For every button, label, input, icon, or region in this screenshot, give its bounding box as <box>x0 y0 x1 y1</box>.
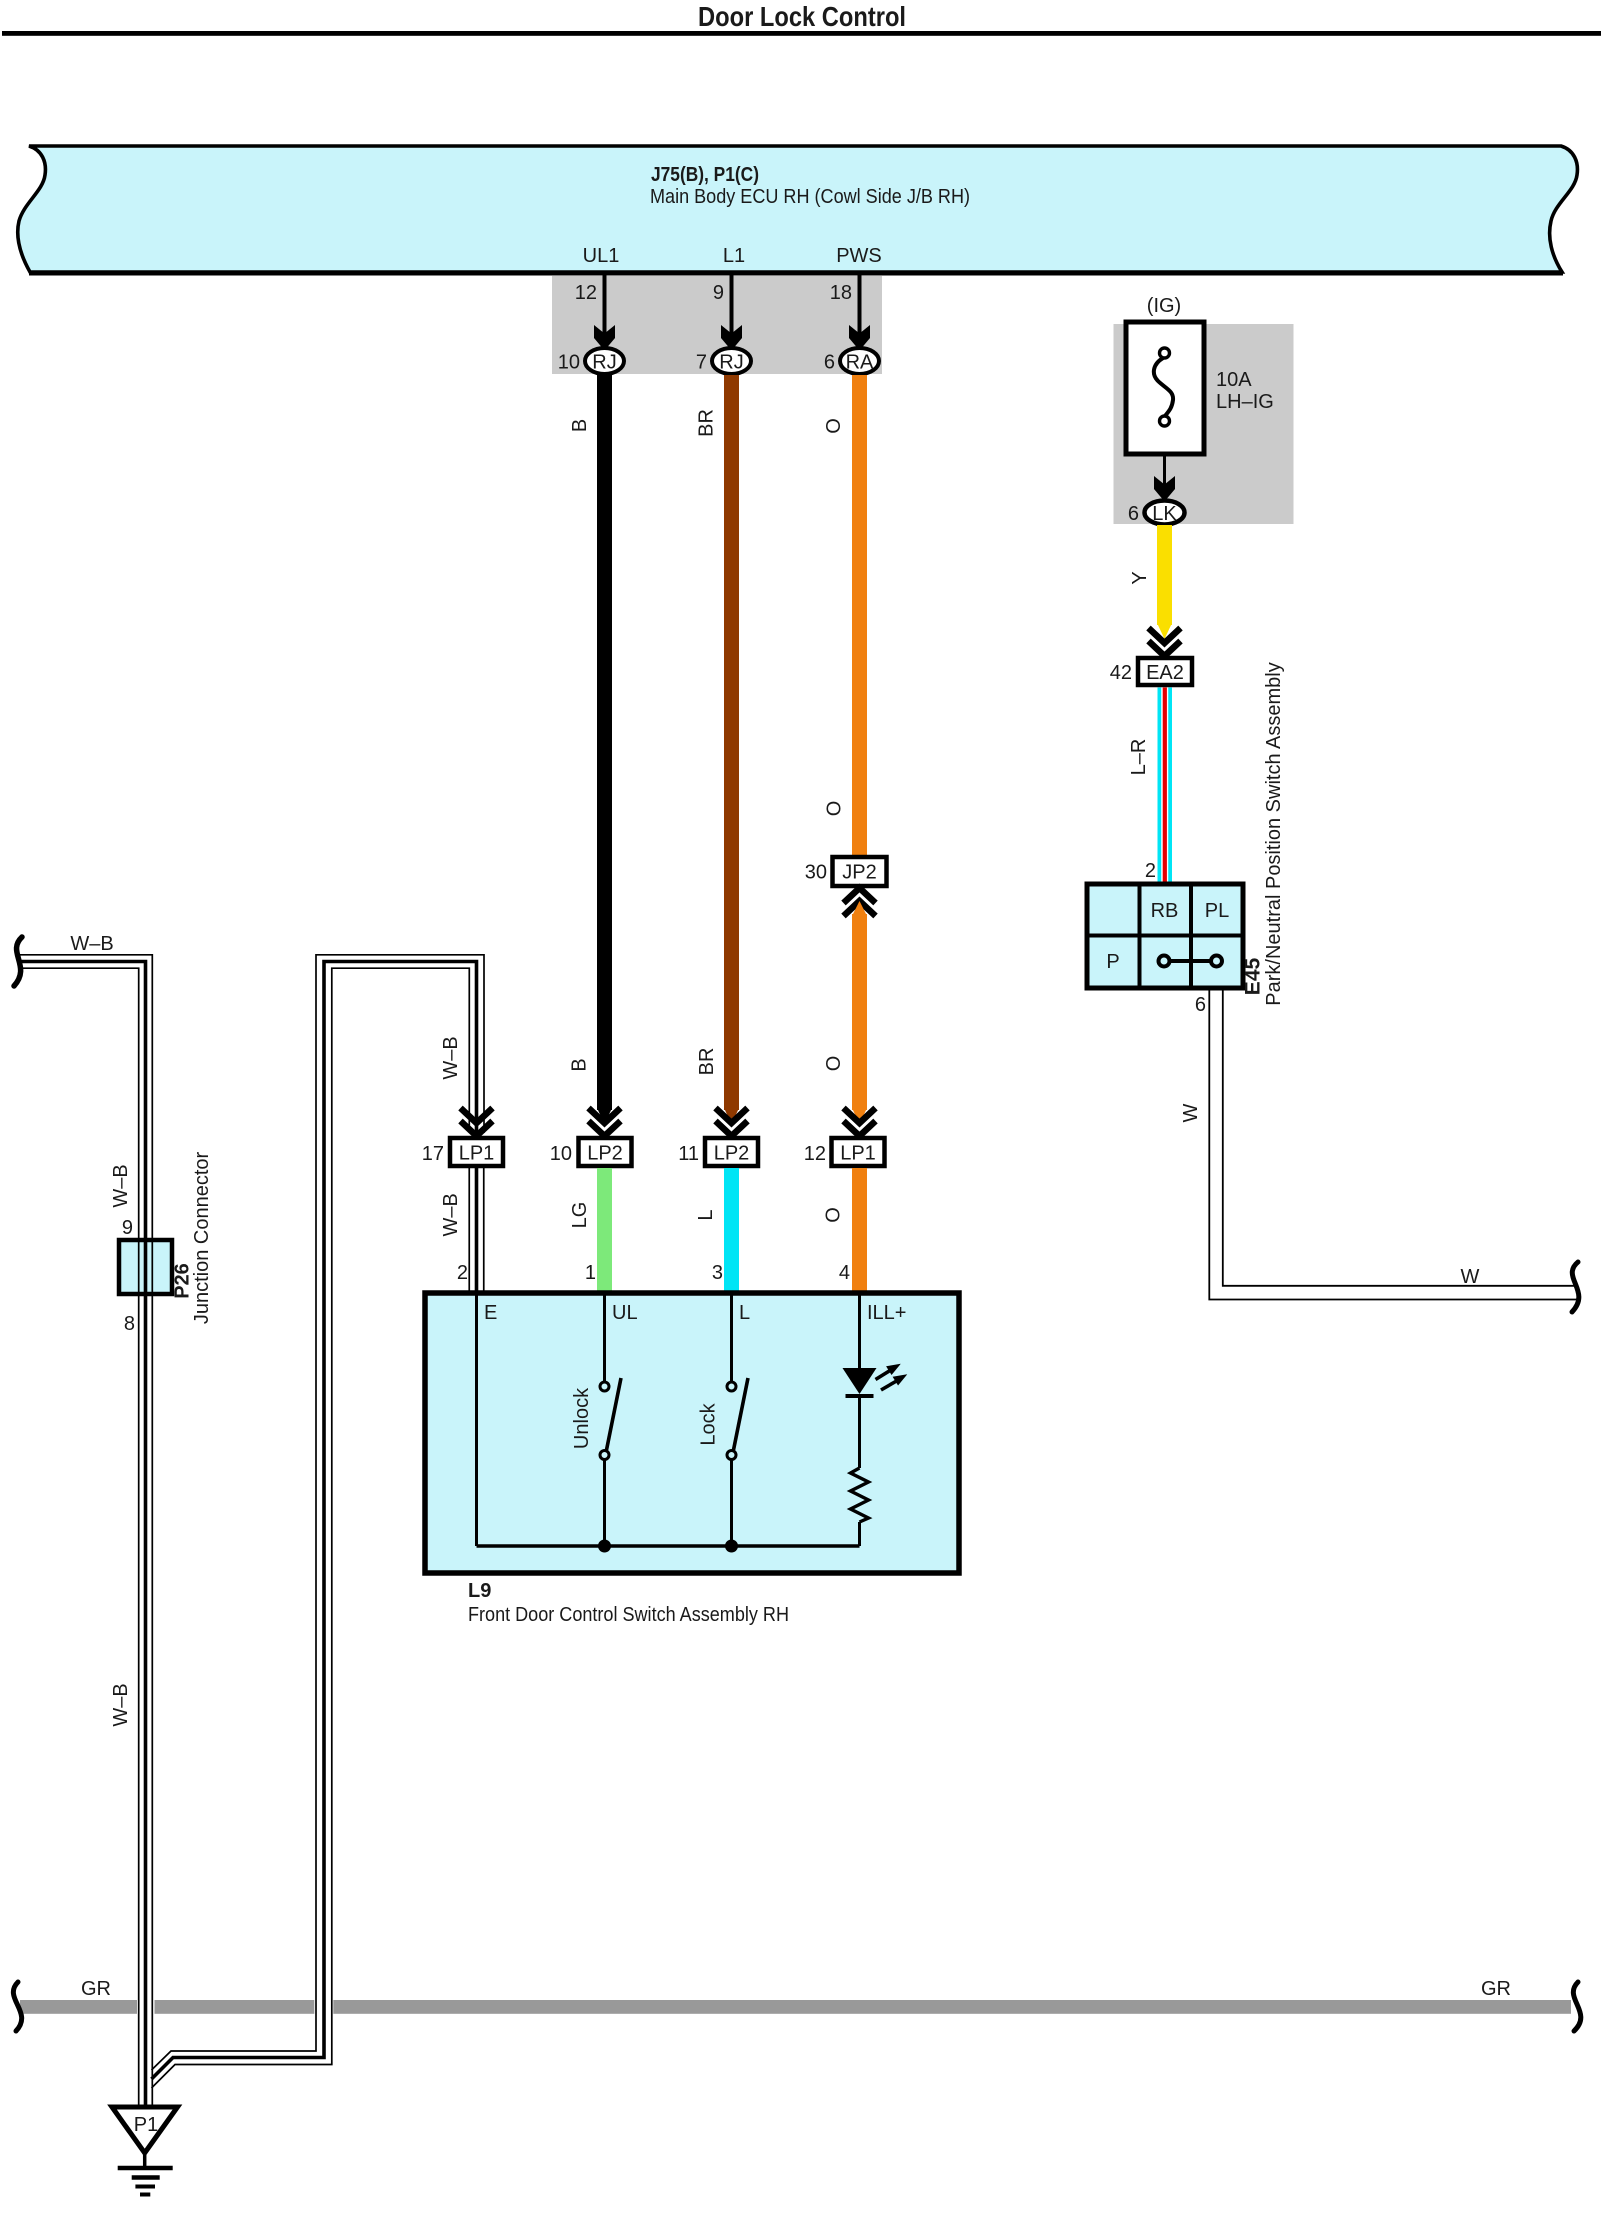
svg-text:PL: PL <box>1205 900 1229 922</box>
banner pin name UL1 <box>583 245 620 267</box>
chevron arrows up below JP2 <box>844 888 876 916</box>
svg-text:12: 12 <box>804 1143 826 1165</box>
wire W double line from E45 pin 6 <box>1209 988 1578 1300</box>
svg-text:11: 11 <box>678 1143 699 1165</box>
cell label PL <box>1205 900 1229 922</box>
svg-text:12: 12 <box>575 282 597 304</box>
E45 internal switch contacts <box>1159 956 1223 967</box>
terminal label L (L9) <box>739 1302 750 1324</box>
arrow into LK <box>1154 476 1175 502</box>
svg-text:E: E <box>484 1302 497 1324</box>
svg-text:10: 10 <box>550 1143 572 1165</box>
chevron arrows down above LP2 11 <box>716 1108 748 1136</box>
wire label L <box>695 1209 717 1220</box>
connector LP1 pin 17 box <box>450 1138 503 1166</box>
svg-text:42: 42 <box>1110 662 1132 684</box>
terminal label E <box>484 1302 497 1324</box>
LED emission arrows <box>876 1365 907 1391</box>
svg-text:7: 7 <box>696 352 707 374</box>
connector oval RJ pin 7 <box>712 348 751 374</box>
wire Y yellow <box>1157 525 1172 639</box>
break symbol GR right <box>1573 1982 1580 2031</box>
svg-text:GR: GR <box>1481 1978 1511 2000</box>
wire L cyan to L9 <box>724 1168 739 1293</box>
cell label RB <box>1151 900 1179 922</box>
banner pin name PWS <box>836 245 882 267</box>
svg-text:W–B: W–B <box>440 1036 462 1079</box>
ground symbol P1 triangle <box>112 2107 178 2153</box>
wire label W horizontal <box>1461 1266 1480 1288</box>
svg-text:LP2: LP2 <box>587 1143 623 1165</box>
connector oval LK pin 6 <box>1145 501 1185 526</box>
junction connector JP2 pin 30 box <box>833 857 887 886</box>
ground stub and hatch bars <box>118 2153 173 2195</box>
svg-text:BR: BR <box>696 409 718 437</box>
arrow into RJ (10) <box>594 325 615 351</box>
LED illumination diode <box>843 1368 877 1468</box>
pin number 30 <box>805 862 827 884</box>
svg-text:2: 2 <box>1145 860 1156 882</box>
cell label P <box>1106 951 1119 973</box>
pin number 42 <box>1110 662 1132 684</box>
title underline rule <box>2 31 1601 36</box>
wire LG light green to L9 <box>597 1168 612 1293</box>
internal bus line <box>477 1544 860 1548</box>
break symbol GR left <box>13 1982 21 2031</box>
internal wire L terminal <box>730 1295 733 1382</box>
svg-text:J75(B), P1(C): J75(B), P1(C) <box>651 164 759 186</box>
internal wire E terminal <box>475 1295 478 1546</box>
svg-text:B: B <box>569 419 591 432</box>
svg-text:W: W <box>1461 1266 1480 1288</box>
svg-text:P1: P1 <box>134 2114 158 2136</box>
pin number 3 (L9 L) <box>712 1262 723 1284</box>
wire W-B through P26 <box>139 1240 153 1294</box>
svg-text:30: 30 <box>805 862 827 884</box>
chevron arrows down above LP2 10 <box>589 1108 621 1136</box>
junction connector P26 box <box>119 1240 172 1294</box>
connector LP2 pin 10 box <box>579 1138 632 1166</box>
lock switch contacts and blade <box>727 1378 748 1546</box>
pin number 6 (E45) <box>1195 994 1206 1016</box>
terminal label ILL+ <box>867 1302 906 1324</box>
component ref L9 <box>468 1580 491 1602</box>
svg-text:(IG): (IG) <box>1147 295 1181 317</box>
pin number 11 <box>678 1143 699 1165</box>
svg-text:L1: L1 <box>723 245 745 267</box>
internal wire UL terminal <box>603 1295 606 1382</box>
connector oval RJ pin 10 <box>585 348 624 374</box>
banner label J75(B), P1(C) <box>651 164 759 186</box>
wire stub pin 9 <box>730 274 734 340</box>
chevron arrows down above EA2 <box>1149 628 1181 656</box>
pin number 8 (P26) <box>124 1313 135 1335</box>
fuse box 10A LH-IG <box>1126 322 1204 454</box>
svg-text:O: O <box>823 1207 845 1223</box>
wire label W vertical <box>1180 1103 1202 1122</box>
break symbol W wire right <box>1572 1262 1579 1312</box>
wire label BR upper <box>696 409 718 437</box>
ECU banner J75(B) P1(C) body <box>18 146 1578 276</box>
svg-text:Door Lock Control: Door Lock Control <box>698 1 906 32</box>
svg-text:W–B: W–B <box>110 1164 132 1207</box>
wire label W-B above L9 <box>440 1193 462 1236</box>
svg-text:W: W <box>1180 1103 1202 1122</box>
wire W-B branch loop from E terminal <box>152 955 485 2088</box>
svg-text:O: O <box>823 418 845 434</box>
wire label Y <box>1129 571 1151 584</box>
pin number 12 (LP1) <box>804 1143 826 1165</box>
pin number 7 <box>696 352 707 374</box>
E45 park neutral switch table <box>1087 884 1243 988</box>
svg-text:10A: 10A <box>1216 369 1252 391</box>
label GR left <box>81 1978 111 2000</box>
terminal label UL <box>612 1302 638 1324</box>
chevron arrows down above LP1 12 <box>844 1108 876 1136</box>
svg-text:LK: LK <box>1152 503 1177 525</box>
wire label W-B mid <box>110 1164 132 1207</box>
pin number 10 (LP2) <box>550 1143 572 1165</box>
svg-text:6: 6 <box>1128 503 1139 525</box>
wire label O above JP2 <box>824 801 846 817</box>
pin number 4 (L9 ILL+) <box>839 1262 850 1284</box>
svg-text:O: O <box>824 801 846 817</box>
wire O orange upper segment <box>852 375 867 857</box>
pin number 1 (L9 UL) <box>585 1262 596 1284</box>
pin number 10 <box>558 352 580 374</box>
svg-text:10: 10 <box>558 352 580 374</box>
svg-text:LH–IG: LH–IG <box>1216 391 1274 413</box>
component ref E45 <box>1242 958 1265 996</box>
svg-text:Y: Y <box>1129 571 1151 584</box>
wire label B lower <box>569 1058 591 1071</box>
svg-text:Main Body ECU RH (Cowl Side J/: Main Body ECU RH (Cowl Side J/B RH) <box>650 186 970 208</box>
component ref P26 <box>172 1263 194 1299</box>
connector LP1 pin 12 box <box>832 1138 885 1166</box>
arrow into RJ (7) <box>721 325 742 351</box>
banner pin name L1 <box>723 245 745 267</box>
wire label W-B top left <box>70 933 113 955</box>
connector shading box of J/B <box>552 276 882 374</box>
connector EA2 pin 42 box <box>1138 658 1192 685</box>
svg-text:LP1: LP1 <box>459 1143 495 1165</box>
svg-text:L–R: L–R <box>1128 739 1150 776</box>
internal wire ILL+ terminal <box>858 1295 861 1368</box>
svg-text:9: 9 <box>122 1217 133 1239</box>
GR ground bus bar <box>20 1997 1571 2017</box>
svg-text:Unlock: Unlock <box>571 1387 593 1449</box>
wire label L-R <box>1128 739 1150 776</box>
svg-text:PWS: PWS <box>836 245 882 267</box>
title Door Lock Control <box>698 1 906 32</box>
svg-text:UL1: UL1 <box>583 245 620 267</box>
svg-text:O: O <box>823 1056 845 1072</box>
component name Front Door Control Switch Assembly RH <box>468 1604 789 1626</box>
break symbol W-B wire left <box>14 937 22 986</box>
wire BR brown vertical <box>724 375 739 1124</box>
L9 switch assembly box <box>425 1293 959 1573</box>
bus junction dot UL <box>598 1540 611 1553</box>
bus junction dot L <box>725 1540 738 1553</box>
fuse label (IG) <box>1147 295 1181 317</box>
wire label W-B lower <box>110 1683 132 1726</box>
svg-text:18: 18 <box>830 282 852 304</box>
wire W-B triple line LP1 to L9 <box>469 1166 484 1293</box>
svg-text:1: 1 <box>585 1262 596 1284</box>
svg-text:E45: E45 <box>1242 958 1265 996</box>
svg-text:W–B: W–B <box>70 933 113 955</box>
svg-text:6: 6 <box>824 352 835 374</box>
svg-text:BR: BR <box>696 1048 718 1076</box>
wire O orange to L9 <box>852 1168 867 1293</box>
svg-text:L9: L9 <box>468 1580 491 1602</box>
svg-text:RJ: RJ <box>592 352 616 374</box>
svg-text:Lock: Lock <box>698 1402 720 1445</box>
unlock switch contacts and blade <box>600 1378 621 1546</box>
svg-text:RB: RB <box>1151 900 1179 922</box>
component name Junction Connector <box>191 1152 213 1325</box>
wire stub pin 12 <box>603 274 607 340</box>
fuse rating 10A <box>1216 369 1252 391</box>
svg-text:6: 6 <box>1195 994 1206 1016</box>
svg-text:8: 8 <box>124 1313 135 1335</box>
pin number 6 (LK) <box>1128 503 1139 525</box>
chevron arrows down above LP1 17 <box>461 1108 493 1136</box>
pin number 2 (E45) <box>1145 860 1156 882</box>
svg-text:2: 2 <box>457 1262 468 1284</box>
svg-text:UL: UL <box>612 1302 638 1324</box>
pin number 12 <box>575 282 597 304</box>
wire O orange lower segment to LP1 <box>852 901 867 1124</box>
svg-text:4: 4 <box>839 1262 850 1284</box>
svg-text:3: 3 <box>712 1262 723 1284</box>
wire label O upper <box>823 418 845 434</box>
banner label Main Body ECU RH (Cowl Side J/B RH) <box>650 186 970 208</box>
wire label BR lower <box>696 1048 718 1076</box>
connector LP2 pin 11 box <box>705 1138 758 1166</box>
pin number 9 <box>713 282 724 304</box>
pin number 9 (P26) <box>122 1217 133 1239</box>
svg-text:W–B: W–B <box>110 1683 132 1726</box>
wire fuse to LK <box>1163 454 1166 492</box>
resistor zigzag <box>851 1468 869 1546</box>
wire L-R cyan with red stripe <box>1158 688 1173 885</box>
pin number 6 <box>824 352 835 374</box>
svg-text:9: 9 <box>713 282 724 304</box>
wire stub pin 18 <box>858 274 862 340</box>
svg-text:EA2: EA2 <box>1146 662 1184 684</box>
svg-text:RJ: RJ <box>719 352 743 374</box>
wire B black vertical <box>597 375 612 1124</box>
wire label LG <box>569 1202 591 1229</box>
svg-text:P: P <box>1106 951 1119 973</box>
svg-text:17: 17 <box>422 1143 444 1165</box>
svg-text:LP1: LP1 <box>840 1143 876 1165</box>
svg-text:B: B <box>569 1058 591 1071</box>
svg-text:Park/Neutral Position Switch A: Park/Neutral Position Switch Assembly <box>1263 662 1285 1005</box>
svg-text:RA: RA <box>846 352 874 374</box>
fuse name LH-IG <box>1216 391 1274 413</box>
svg-text:JP2: JP2 <box>842 862 876 884</box>
pin number 18 <box>830 282 852 304</box>
switch label Unlock <box>571 1387 593 1449</box>
switch label Lock <box>698 1402 720 1445</box>
svg-text:L: L <box>695 1209 717 1220</box>
arrow into RA (6) <box>849 325 870 351</box>
wire label O lower <box>823 1056 845 1072</box>
svg-text:LP2: LP2 <box>714 1143 750 1165</box>
svg-text:L: L <box>739 1302 750 1324</box>
pin number 17 <box>422 1143 444 1165</box>
wire W-B main run from break to ground <box>20 955 152 2107</box>
connector oval RA pin 6 <box>840 348 879 374</box>
svg-text:Junction Connector: Junction Connector <box>191 1152 213 1325</box>
svg-text:Front Door Control Switch Asse: Front Door Control Switch Assembly RH <box>468 1604 789 1626</box>
label GR right <box>1481 1978 1511 2000</box>
wire label O to L9 <box>823 1207 845 1223</box>
connector shading box fuse area <box>1114 324 1294 524</box>
pin number 2 (L9 E) <box>457 1262 468 1284</box>
svg-text:ILL+: ILL+ <box>867 1302 906 1324</box>
svg-text:W–B: W–B <box>440 1193 462 1236</box>
svg-text:LG: LG <box>569 1202 591 1229</box>
svg-text:GR: GR <box>81 1978 111 2000</box>
wire label W-B branch <box>440 1036 462 1079</box>
wire label B upper <box>569 419 591 432</box>
component name Park/Neutral Position Switch Assembly <box>1263 662 1285 1005</box>
